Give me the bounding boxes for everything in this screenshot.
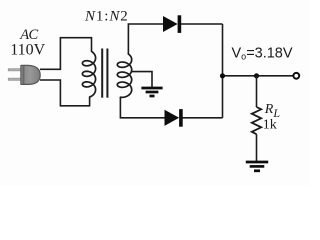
wire secondary bottom lead and bottom rail	[120, 97, 164, 118]
ground RL	[246, 162, 268, 171]
diode D2	[165, 109, 183, 127]
node output junction	[220, 73, 225, 78]
svg-text:Vo=3.18V: Vo=3.18V	[232, 45, 293, 61]
AC plug P1	[8, 65, 40, 84]
node resistor junction	[254, 73, 259, 78]
terminal output	[293, 73, 299, 79]
wire resistor top lead	[256, 76, 258, 107]
wire secondary top lead and top rail	[128, 24, 163, 54]
ground center tap	[141, 88, 162, 96]
svg-text:110V: 110V	[10, 41, 45, 58]
svg-text:N1:N2: N1:N2	[84, 9, 129, 25]
wire cathode bus	[222, 24, 224, 118]
wire bottom rail right of D2	[182, 117, 222, 119]
wire plug bottom to primary	[40, 80, 90, 106]
wire top rail right of D1	[181, 23, 223, 25]
wire center tap	[131, 72, 152, 87]
wire resistor bottom lead	[256, 134, 258, 161]
wire output	[223, 75, 294, 77]
transformer T1 primary winding	[82, 51, 95, 97]
svg-text:1k: 1k	[263, 118, 277, 133]
wire plug top to primary	[40, 38, 92, 70]
transformer T1 core	[102, 49, 107, 98]
transformer T1 secondary winding	[117, 54, 131, 97]
diode D1	[164, 15, 182, 33]
resistor RL	[252, 107, 261, 134]
